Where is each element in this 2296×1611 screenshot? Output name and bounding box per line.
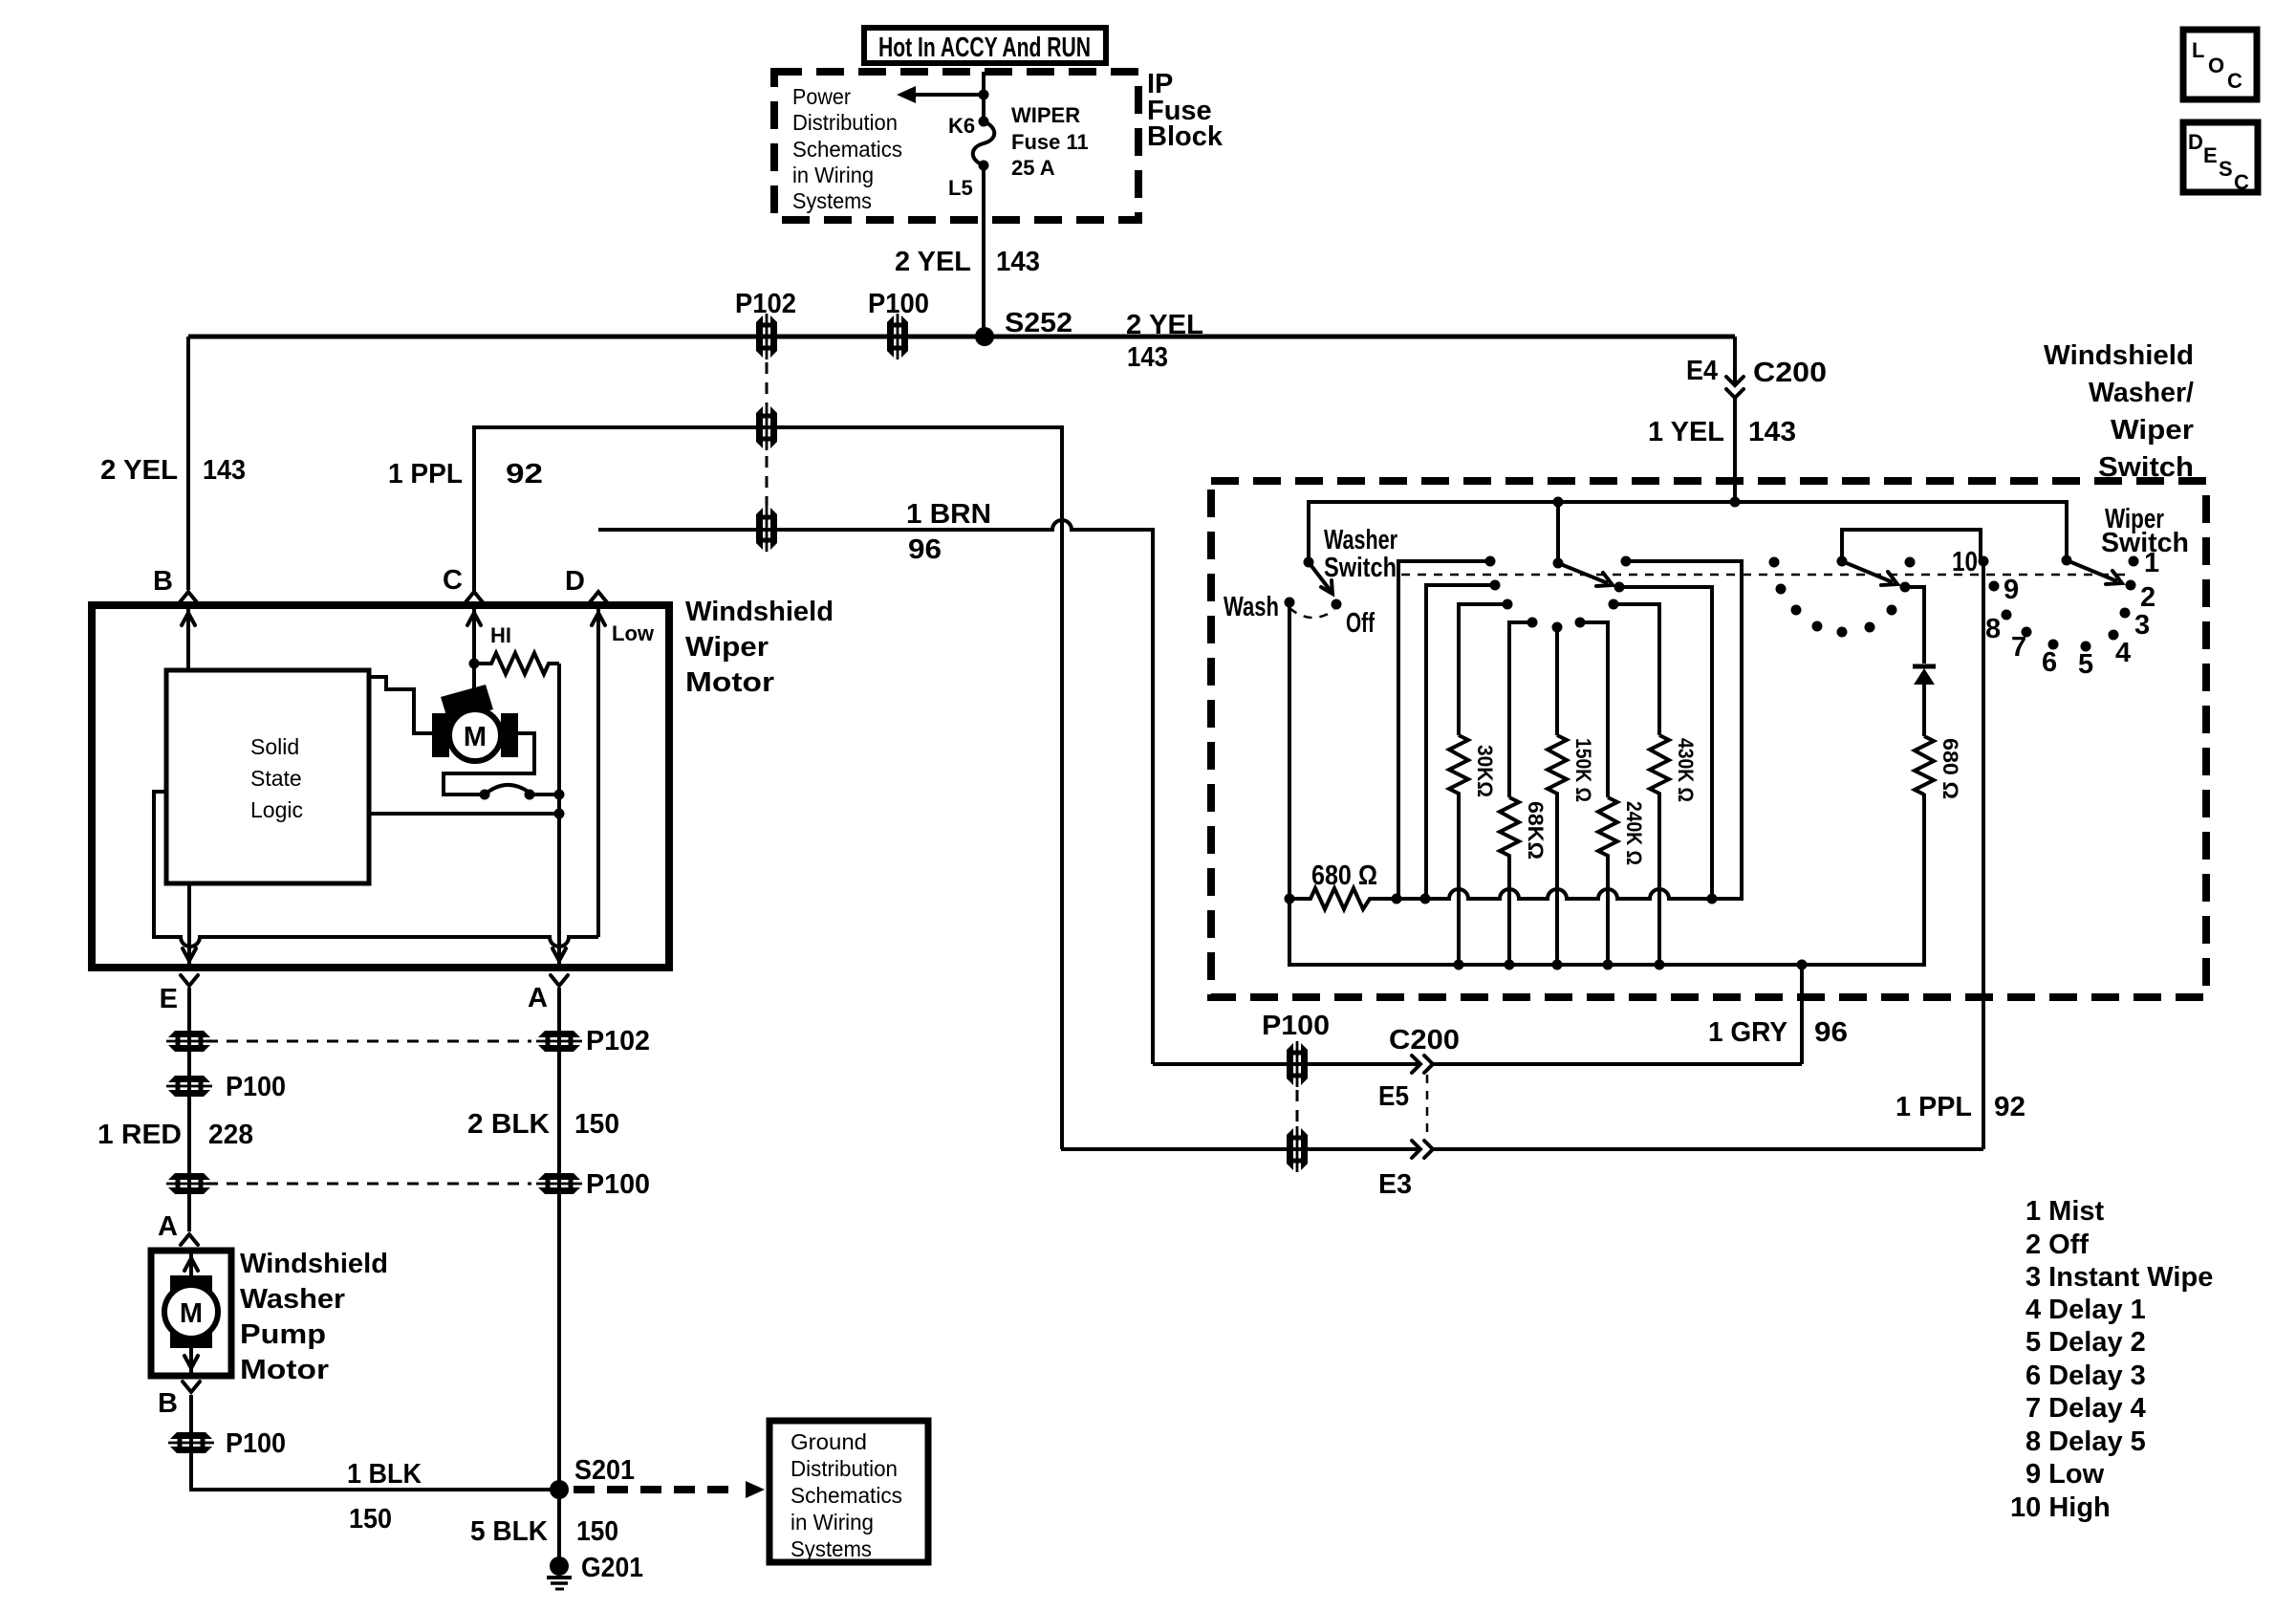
pin K6 <box>979 117 989 127</box>
dashed link P102 column lower <box>766 456 769 506</box>
washer switch arm <box>1304 557 1314 568</box>
svg-text:7 Delay 4: 7 Delay 4 <box>2025 1393 2146 1424</box>
box LOC <box>2183 30 2257 99</box>
wire 1 PPL from C up and right <box>474 427 1062 1149</box>
windshield wiper motor box <box>92 605 669 968</box>
delay arm pivot bridge <box>1842 530 1981 561</box>
connector P100 left only <box>166 1076 212 1097</box>
box DESC <box>2183 122 2258 192</box>
position 10 contact <box>1979 556 1989 567</box>
svg-text:Windshield: Windshield <box>240 1249 388 1279</box>
svg-text:S252: S252 <box>1005 308 1072 338</box>
svg-text:Wiper: Wiper <box>685 632 769 663</box>
IP fuse block dashed box <box>774 72 1138 220</box>
svg-text:3: 3 <box>2134 610 2150 641</box>
svg-text:96: 96 <box>1814 1017 1848 1048</box>
svg-text:143: 143 <box>1748 417 1796 447</box>
contact Off <box>1332 599 1342 610</box>
parking switch contacts <box>480 790 490 800</box>
svg-text:2 YEL: 2 YEL <box>1126 310 1203 340</box>
svg-text:L: L <box>2192 38 2204 62</box>
svg-text:C200: C200 <box>1389 1025 1460 1056</box>
pin C chevron <box>466 592 483 602</box>
svg-text:A: A <box>158 1211 178 1242</box>
svg-text:7: 7 <box>2011 632 2026 663</box>
resistor 150K <box>1548 735 1567 965</box>
wire A column down to S201 <box>557 988 561 1490</box>
ground G201 <box>550 1557 569 1576</box>
svg-text:10: 10 <box>1952 547 1978 577</box>
wire S201 to G201 <box>557 1490 561 1558</box>
pump brush bottom <box>170 1327 212 1348</box>
pump wire with arrows <box>189 1251 193 1376</box>
wire output down to E5 <box>1800 965 1804 1064</box>
svg-text:92: 92 <box>506 459 543 490</box>
node at arrow junction <box>979 90 989 100</box>
diode <box>1913 664 1936 669</box>
svg-text:9: 9 <box>2004 575 2019 605</box>
svg-text:Systems: Systems <box>791 1536 872 1561</box>
svg-text:8: 8 <box>1985 614 2001 644</box>
svg-text:240K Ω: 240K Ω <box>1622 801 1646 865</box>
node washer-arm feed <box>1553 497 1564 508</box>
svg-text:Block: Block <box>1147 121 1224 152</box>
wire pump B down <box>191 1395 559 1490</box>
bottom rail <box>1289 794 1924 965</box>
wire C to motor <box>472 664 476 693</box>
svg-text:M: M <box>180 1298 203 1329</box>
wiper switch arm <box>2062 555 2072 566</box>
svg-text:B: B <box>153 566 173 597</box>
svg-text:150: 150 <box>574 1109 619 1140</box>
svg-text:25 A: 25 A <box>1011 156 1055 180</box>
svg-text:Windshield: Windshield <box>2044 340 2194 371</box>
connector P100 pair row <box>166 1173 212 1194</box>
svg-text:Washer/: Washer/ <box>2089 378 2194 408</box>
connector P100 on E3 <box>1287 1126 1308 1172</box>
wire 1 YEL 143 down into switch <box>1733 398 1737 502</box>
contact position 7 <box>2022 627 2032 638</box>
wire E3 1 PPL <box>1061 1147 1983 1151</box>
right contact stub 430K <box>1609 599 1619 610</box>
svg-text:6 Delay 3: 6 Delay 3 <box>2025 1361 2146 1391</box>
left contact stub 2 <box>1426 585 1495 899</box>
resistor 430K <box>1650 735 1669 965</box>
dashed C200 plane <box>1426 1075 1429 1140</box>
svg-text:P102: P102 <box>586 1026 650 1056</box>
middle selector arm <box>1556 502 1560 563</box>
svg-text:150: 150 <box>576 1516 618 1547</box>
svg-text:Low: Low <box>612 621 655 645</box>
wire SSL right to A vertical <box>369 812 559 816</box>
svg-text:1: 1 <box>2144 548 2159 578</box>
wire fuse output down to S252 <box>982 165 986 337</box>
left contact stub 1 <box>1398 561 1490 899</box>
svg-text:Washer: Washer <box>1324 525 1397 555</box>
dashed link P102 column upper <box>766 362 769 404</box>
wire C inside with arrow <box>472 605 476 664</box>
svg-text:Power: Power <box>792 84 851 109</box>
contact position 8 <box>2002 610 2012 620</box>
svg-text:Solid: Solid <box>250 734 299 759</box>
svg-text:1 YEL: 1 YEL <box>1648 417 1724 447</box>
wire B inside with arrow <box>186 605 190 670</box>
svg-text:A: A <box>528 983 548 1013</box>
svg-text:430K Ω: 430K Ω <box>1674 738 1698 802</box>
connector P100 on bus <box>887 314 908 359</box>
pin A washer pump chevron <box>181 1234 198 1245</box>
right contact stub top <box>1621 556 1632 567</box>
pin D chevron <box>590 592 607 602</box>
connector P102 pair row <box>166 1031 212 1052</box>
svg-text:L5: L5 <box>948 176 973 200</box>
svg-text:Schematics: Schematics <box>791 1483 902 1508</box>
svg-text:D: D <box>565 566 585 597</box>
center contact stub <box>1552 622 1563 633</box>
svg-text:G201: G201 <box>581 1553 643 1583</box>
wire 2 YEL left drop to B <box>186 337 190 590</box>
svg-text:C: C <box>2234 170 2249 194</box>
wire 2 YEL main bus S252 <box>188 335 1735 339</box>
fuse WIPER Fuse 11 25A <box>973 121 995 165</box>
svg-text:E: E <box>160 984 178 1014</box>
svg-text:HI: HI <box>490 623 511 647</box>
svg-text:2: 2 <box>2140 582 2155 613</box>
svg-text:E: E <box>2203 143 2218 167</box>
left contact stub 4 <box>1509 622 1532 797</box>
svg-text:92: 92 <box>1994 1092 2025 1122</box>
contact position 4 <box>2109 630 2119 641</box>
contact position 6 <box>2048 640 2059 650</box>
resistor 680 ohm vertical <box>1915 736 1934 795</box>
washer pump motor box <box>151 1251 231 1376</box>
wire D inside with arrow (Low) <box>596 605 600 937</box>
svg-text:2 Off: 2 Off <box>2025 1230 2089 1260</box>
svg-text:Fuse 11: Fuse 11 <box>1011 130 1089 154</box>
svg-text:B: B <box>158 1388 178 1419</box>
svg-text:Hot In ACCY And RUN: Hot In ACCY And RUN <box>878 33 1091 63</box>
svg-text:5 Delay 2: 5 Delay 2 <box>2025 1327 2146 1358</box>
box Hot In ACCY And RUN <box>864 28 1106 63</box>
wire SSL to motor left terminal <box>369 677 432 733</box>
contact Wash <box>1285 598 1295 608</box>
dashed wire S201 to ground distribution <box>574 1486 736 1493</box>
svg-text:1 GRY: 1 GRY <box>1708 1017 1787 1048</box>
resistor 68K <box>1500 797 1519 965</box>
svg-text:Ground: Ground <box>791 1429 867 1454</box>
ground distribution box <box>769 1421 928 1562</box>
wire motor right to parking switch <box>444 733 534 795</box>
parking switch arc <box>485 785 530 795</box>
svg-text:Distribution: Distribution <box>791 1456 898 1481</box>
motor M circle <box>449 709 501 761</box>
resistor 30K <box>1449 735 1468 965</box>
svg-text:680 Ω: 680 Ω <box>1311 860 1377 891</box>
svg-text:5 BLK: 5 BLK <box>470 1516 548 1547</box>
svg-text:S: S <box>2219 157 2233 181</box>
node C junction <box>469 659 480 669</box>
svg-text:Systems: Systems <box>792 188 872 213</box>
svg-text:8 Delay 5: 8 Delay 5 <box>2025 1426 2146 1457</box>
motor top bar <box>441 685 493 722</box>
connector P100 on E5 <box>1287 1041 1308 1087</box>
node 1 GRY output <box>1797 960 1808 970</box>
svg-text:M: M <box>464 722 487 752</box>
wire wash down to resistor row <box>1288 602 1291 899</box>
washer/wiper switch dashed box <box>1211 481 2206 997</box>
wire bus corner down to E4 <box>1733 337 1737 385</box>
wire D loop to SSL left <box>154 792 598 947</box>
svg-text:P102: P102 <box>735 289 796 319</box>
svg-text:6: 6 <box>2042 647 2057 678</box>
right contact stub 240K <box>1575 618 1586 628</box>
svg-text:P100: P100 <box>226 1428 286 1459</box>
svg-text:Logic: Logic <box>250 797 303 822</box>
svg-text:P100: P100 <box>586 1169 650 1200</box>
motor brush left <box>432 713 449 757</box>
node resistor row junctions <box>1392 894 1402 904</box>
svg-text:P100: P100 <box>226 1072 286 1102</box>
contact position 2 <box>2126 580 2136 591</box>
wire E inside with arrow <box>187 883 191 968</box>
svg-text:State: State <box>250 766 302 791</box>
svg-text:150: 150 <box>349 1504 392 1535</box>
node bottom rail junctions <box>1454 960 1464 970</box>
svg-text:9 Low: 9 Low <box>2025 1459 2105 1490</box>
wire high position down to E3 <box>1982 561 1985 1149</box>
contact to diode branch <box>1900 582 1911 593</box>
left contact stub 3 <box>1459 604 1507 735</box>
connector C200 E5 chevrons <box>1412 1056 1420 1073</box>
pin L5 <box>979 161 989 171</box>
svg-text:Washer: Washer <box>240 1284 345 1315</box>
connector P102 on bus <box>756 314 777 359</box>
svg-text:2 BLK: 2 BLK <box>467 1109 550 1140</box>
solid state logic box <box>166 670 369 883</box>
delay contact arc dots <box>1769 557 1780 568</box>
svg-text:680 Ω: 680 Ω <box>1939 738 1962 799</box>
svg-text:143: 143 <box>1127 342 1168 373</box>
svg-text:O: O <box>2208 54 2224 77</box>
node logic junction <box>554 809 565 819</box>
contact position 1 <box>2129 556 2139 567</box>
delay arm <box>1842 561 1893 582</box>
wire 1 BRN from D right with hop over PPL <box>598 520 1153 1064</box>
dashed travel arc wash-off <box>1289 608 1334 618</box>
contact position 3 <box>2120 608 2131 619</box>
svg-text:WIPER: WIPER <box>1011 103 1080 127</box>
svg-text:S201: S201 <box>574 1455 635 1486</box>
svg-text:E4: E4 <box>1686 356 1718 386</box>
wire E column down <box>187 988 191 1231</box>
svg-text:143: 143 <box>203 455 246 486</box>
svg-text:3 Instant Wipe: 3 Instant Wipe <box>2025 1262 2213 1293</box>
svg-text:K6: K6 <box>948 114 975 138</box>
svg-text:2 YEL: 2 YEL <box>100 455 178 486</box>
svg-text:Wiper: Wiper <box>2111 415 2194 446</box>
svg-text:Wash: Wash <box>1224 592 1279 622</box>
svg-text:1 BRN: 1 BRN <box>906 499 991 530</box>
thin dashed travel line <box>1401 574 2128 577</box>
node 1 YEL feed <box>1730 497 1741 508</box>
svg-text:150K Ω: 150K Ω <box>1571 738 1595 802</box>
wire switch internal bus <box>1309 502 2067 562</box>
splice S252 <box>975 327 994 346</box>
resistor HI <box>474 653 559 674</box>
wire parking to A vertical <box>530 793 559 796</box>
motor brush right <box>501 713 518 757</box>
pin E chevron <box>181 975 198 986</box>
svg-text:1 PPL: 1 PPL <box>1895 1092 1972 1122</box>
wire from hot feed down into fuse <box>982 72 986 121</box>
svg-text:10 High: 10 High <box>2010 1492 2111 1523</box>
resistor row 680 ohm <box>1285 894 1295 904</box>
svg-text:143: 143 <box>996 247 1040 277</box>
svg-text:4 Delay 1: 4 Delay 1 <box>2025 1295 2146 1325</box>
svg-text:5: 5 <box>2078 649 2093 680</box>
svg-text:1 RED: 1 RED <box>97 1120 182 1150</box>
svg-text:E3: E3 <box>1378 1169 1412 1200</box>
splice S201 <box>550 1480 569 1499</box>
connector P100 pump <box>168 1432 214 1453</box>
pin B washer pump chevron <box>183 1382 200 1392</box>
svg-text:228: 228 <box>208 1120 253 1150</box>
svg-text:30KΩ: 30KΩ <box>1473 745 1497 797</box>
pin B chevron <box>180 592 197 602</box>
pump brush top <box>170 1275 212 1296</box>
svg-text:96: 96 <box>908 534 942 565</box>
wire A vertical from resistor down <box>557 664 561 968</box>
svg-text:Motor: Motor <box>240 1355 329 1385</box>
wire arrow to power distribution <box>913 93 984 97</box>
svg-text:Motor: Motor <box>685 667 774 698</box>
svg-text:C200: C200 <box>1753 358 1827 388</box>
connector C200 E3 chevrons <box>1412 1141 1420 1158</box>
resistor 240K <box>1598 797 1617 965</box>
wire E5 1 GRY <box>1153 1062 1802 1066</box>
svg-text:D: D <box>2188 130 2203 154</box>
contact position 5 <box>2081 642 2091 652</box>
pump M circle <box>164 1285 218 1339</box>
contact position 9 <box>1989 581 2000 592</box>
svg-text:Schematics: Schematics <box>792 137 902 162</box>
svg-text:Pump: Pump <box>240 1319 326 1350</box>
svg-text:4: 4 <box>2115 638 2131 668</box>
svg-text:1 Mist: 1 Mist <box>2025 1196 2105 1227</box>
svg-text:2 YEL: 2 YEL <box>895 247 971 277</box>
connector P100 on 1 BRN wire <box>756 506 777 552</box>
pin A chevron <box>551 975 568 986</box>
svg-text:in Wiring: in Wiring <box>792 163 874 187</box>
svg-text:Windshield: Windshield <box>685 597 834 627</box>
node parking junction <box>554 790 565 800</box>
right contact stub mist <box>1614 582 1625 593</box>
svg-text:Distribution: Distribution <box>792 110 898 135</box>
svg-text:Off: Off <box>1346 608 1375 639</box>
svg-text:P100: P100 <box>868 289 929 319</box>
svg-text:1 PPL: 1 PPL <box>388 459 463 490</box>
svg-text:C: C <box>2227 69 2242 93</box>
svg-text:Switch: Switch <box>1324 553 1397 583</box>
svg-text:E5: E5 <box>1378 1081 1409 1112</box>
svg-text:C: C <box>443 565 463 596</box>
svg-text:1 BLK: 1 BLK <box>347 1459 422 1490</box>
svg-text:in Wiring: in Wiring <box>791 1510 874 1535</box>
connector P102 on 1 PPL wire <box>756 404 777 450</box>
dashed link between P100s <box>1296 1090 1299 1123</box>
svg-text:P100: P100 <box>1262 1011 1330 1041</box>
connector C200 E4 chevrons <box>1726 377 1744 385</box>
svg-text:68KΩ: 68KΩ <box>1524 801 1548 860</box>
